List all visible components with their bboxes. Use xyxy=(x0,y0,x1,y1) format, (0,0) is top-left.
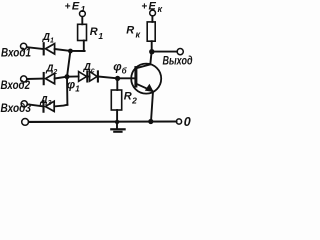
svg-text:Вход2: Вход2 xyxy=(1,80,31,92)
svg-text:Вход1: Вход1 xyxy=(1,48,31,60)
svg-text:Выход: Выход xyxy=(163,56,193,68)
svg-text:Вход3: Вход3 xyxy=(1,103,32,115)
svg-text:0: 0 xyxy=(184,115,191,129)
